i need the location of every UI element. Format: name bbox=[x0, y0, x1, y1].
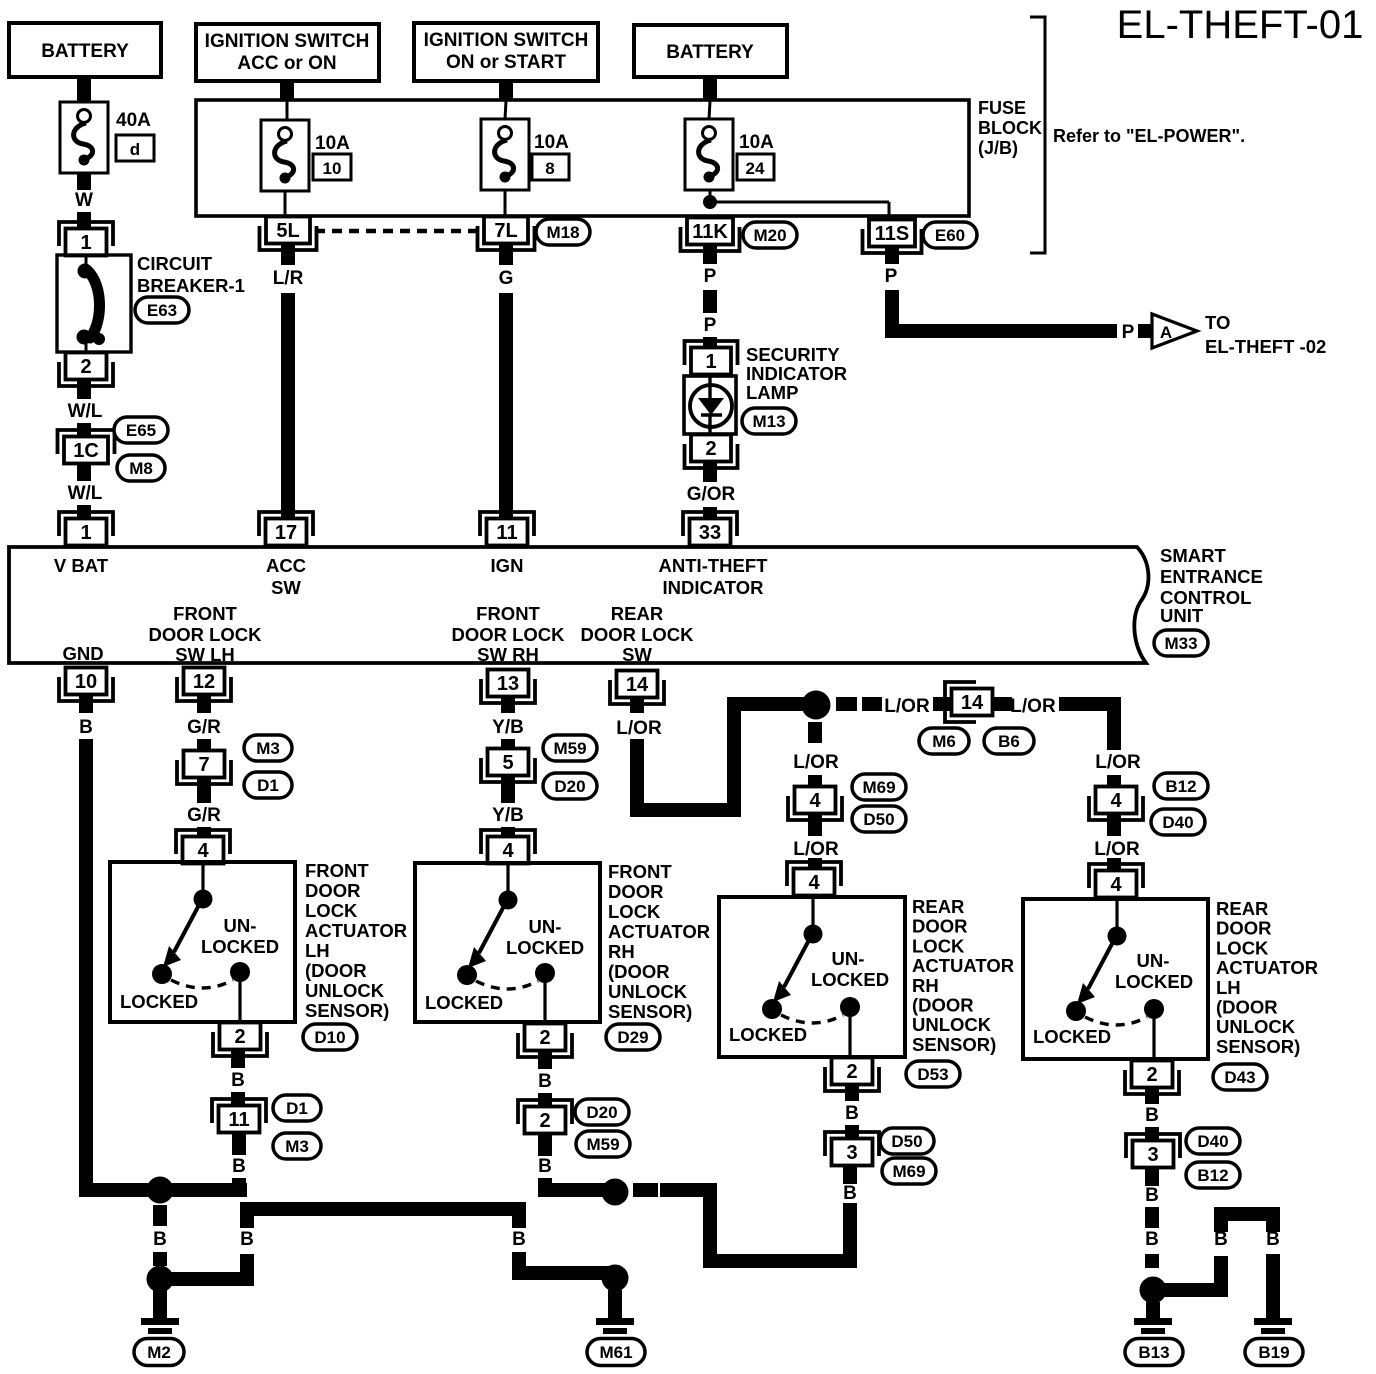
connector 11 D1/M3 bbox=[212, 1099, 266, 1133]
wire label W bbox=[75, 190, 93, 211]
wire 1C to W/L bbox=[77, 464, 91, 481]
wire junctionB to ground M2 bbox=[153, 1290, 167, 1318]
svg-text:M13: M13 bbox=[752, 412, 785, 431]
svg-text:B: B bbox=[845, 1103, 859, 1124]
wire act3 riser bbox=[843, 1203, 857, 1268]
wire label B act3 low bbox=[843, 1183, 857, 1204]
wire label G/R 1 bbox=[187, 717, 221, 738]
svg-text:W/L: W/L bbox=[68, 483, 103, 504]
connector pin 17 ACC SW bbox=[259, 512, 313, 546]
connector label D50 a bbox=[852, 806, 906, 832]
wire pin13 to Y/B bbox=[501, 697, 515, 713]
wire label B leg B19 bbox=[1266, 1229, 1280, 1250]
circuit breaker-1 label bbox=[137, 253, 245, 296]
security indicator lamp label bbox=[746, 344, 847, 403]
svg-text:11: 11 bbox=[496, 522, 517, 544]
svg-text:SECURITY: SECURITY bbox=[746, 344, 840, 365]
svg-text:UN-: UN- bbox=[224, 915, 257, 936]
wire act1-2 to B bbox=[231, 1050, 245, 1068]
svg-text:UNIT: UNIT bbox=[1160, 605, 1204, 626]
connector label M69 a bbox=[852, 774, 906, 800]
svg-text:E65: E65 bbox=[126, 421, 156, 440]
connector label D20 a bbox=[543, 773, 597, 799]
wire 7L to G bbox=[499, 244, 513, 265]
svg-text:DOOR: DOOR bbox=[305, 880, 361, 901]
wire P stub at arrow bbox=[1138, 324, 1152, 338]
connector label D1 b bbox=[273, 1095, 321, 1121]
fuse block J/B outline bbox=[196, 100, 969, 216]
svg-text:B: B bbox=[1266, 1229, 1280, 1250]
svg-text:SW LH: SW LH bbox=[175, 644, 235, 665]
connector 1C bbox=[58, 430, 115, 464]
svg-text:ACC: ACC bbox=[266, 555, 306, 576]
connector 1 lamp bbox=[685, 341, 738, 375]
svg-text:33: 33 bbox=[699, 522, 721, 544]
svg-text:(DOOR: (DOOR bbox=[608, 961, 670, 982]
svg-text:BLOCK: BLOCK bbox=[978, 118, 1042, 138]
wire B to conn3a bbox=[845, 1125, 859, 1139]
rear door lock actuator RH label bbox=[912, 896, 1014, 1055]
connector 4 B12/D40 bbox=[1089, 787, 1143, 821]
wire label G/R 2 bbox=[187, 805, 221, 826]
wire battery B1 to fuse F1 bbox=[77, 77, 91, 102]
svg-text:LOCKED: LOCKED bbox=[506, 937, 584, 958]
wire label L/R 1 bbox=[273, 268, 304, 289]
wire conn3b stub bbox=[1145, 1168, 1159, 1186]
connector 4 front LH bbox=[176, 830, 230, 864]
wire label G bbox=[499, 268, 514, 289]
wire label B riser E bbox=[1214, 1229, 1228, 1250]
svg-text:LOCKED: LOCKED bbox=[120, 991, 198, 1012]
svg-text:CIRCUIT: CIRCUIT bbox=[137, 253, 213, 274]
wire label B act2 bbox=[538, 1071, 552, 1092]
svg-text:2: 2 bbox=[1146, 1064, 1157, 1086]
connector 5L bbox=[260, 217, 317, 251]
ground B19 bbox=[1254, 1318, 1292, 1342]
svg-text:L/OR: L/OR bbox=[616, 718, 662, 739]
ground B13 bbox=[1134, 1318, 1172, 1342]
svg-text:UN-: UN- bbox=[529, 916, 562, 937]
svg-text:B: B bbox=[512, 1229, 526, 1250]
label LOCKED 1 bbox=[120, 991, 198, 1012]
wire label B riser R bbox=[512, 1229, 526, 1250]
svg-text:FUSE: FUSE bbox=[978, 98, 1026, 118]
svg-text:LOCK: LOCK bbox=[912, 935, 965, 956]
svg-text:A: A bbox=[1160, 323, 1172, 342]
pin label ACC SW bbox=[266, 555, 306, 598]
fuse 10A 8 bbox=[481, 119, 569, 190]
connector label D50 b bbox=[880, 1128, 934, 1154]
wire B to conn11 bbox=[231, 1092, 245, 1106]
svg-text:M8: M8 bbox=[129, 459, 153, 478]
svg-text:EL-THEFT -02: EL-THEFT -02 bbox=[1205, 336, 1326, 357]
wire label B act2 low bbox=[538, 1156, 552, 1177]
wire L/OR elbow bbox=[630, 697, 741, 817]
svg-text:5L: 5L bbox=[276, 220, 299, 242]
svg-text:M69: M69 bbox=[862, 778, 895, 797]
wire GND corner to junction bbox=[79, 1183, 247, 1197]
wire junctionE to ground B13 bbox=[1146, 1302, 1160, 1318]
svg-text:ACTUATOR: ACTUATOR bbox=[1216, 957, 1318, 978]
svg-text:ON or START: ON or START bbox=[446, 52, 566, 73]
svg-text:G/R: G/R bbox=[187, 717, 221, 738]
svg-text:M59: M59 bbox=[553, 739, 586, 758]
rear door lock actuator LH box bbox=[1023, 899, 1208, 1059]
connector 11K bbox=[681, 218, 740, 252]
connector label D40 a bbox=[1151, 809, 1205, 835]
svg-text:24: 24 bbox=[746, 159, 765, 178]
fuse 10A 24 bbox=[685, 119, 774, 190]
svg-text:3: 3 bbox=[846, 1142, 857, 1164]
wire junctionC to elbow bbox=[660, 1183, 717, 1197]
svg-text:FRONT: FRONT bbox=[173, 603, 237, 624]
junction node below fuse 24 bbox=[703, 195, 717, 209]
svg-text:d: d bbox=[130, 140, 140, 159]
svg-text:10A: 10A bbox=[739, 132, 774, 153]
connector label D10 bbox=[303, 1024, 357, 1050]
wire label B act4 low bbox=[1145, 1185, 1159, 1206]
svg-text:DOOR: DOOR bbox=[608, 881, 664, 902]
svg-text:E60: E60 bbox=[935, 226, 965, 245]
svg-text:V BAT: V BAT bbox=[54, 555, 109, 576]
svg-text:SW: SW bbox=[622, 644, 652, 665]
svg-text:BREAKER-1: BREAKER-1 bbox=[137, 275, 245, 296]
wire riser E dash bbox=[1214, 1214, 1228, 1232]
svg-text:4: 4 bbox=[808, 872, 820, 894]
svg-text:W: W bbox=[75, 190, 93, 211]
svg-text:4: 4 bbox=[197, 840, 209, 862]
svg-text:TO: TO bbox=[1205, 312, 1230, 333]
connector label B12 a bbox=[1154, 773, 1208, 799]
svg-text:P: P bbox=[704, 266, 717, 287]
title EL-THEFT-01 bbox=[1117, 3, 1364, 47]
svg-text:INDICATOR: INDICATOR bbox=[662, 577, 763, 598]
connector label M59 b bbox=[576, 1131, 630, 1157]
svg-text:8: 8 bbox=[545, 159, 554, 178]
wire P elbow to arrow bbox=[885, 290, 1117, 338]
svg-text:2: 2 bbox=[234, 1026, 245, 1048]
wire label L/OR 3 bbox=[1010, 696, 1056, 717]
svg-text:11K: 11K bbox=[692, 221, 728, 243]
wire riser down right bbox=[512, 1252, 526, 1276]
wire label P 4 bbox=[1122, 322, 1135, 343]
svg-text:D20: D20 bbox=[586, 1103, 617, 1122]
dashed line 5L to 7L bbox=[315, 229, 478, 234]
svg-text:Y/B: Y/B bbox=[492, 805, 524, 826]
svg-text:1: 1 bbox=[705, 351, 716, 373]
battery B2 box bbox=[634, 25, 787, 77]
wire L/R to pin 17 bbox=[281, 293, 295, 519]
svg-text:RH: RH bbox=[608, 941, 635, 962]
wire to conn4b col3 bbox=[808, 858, 822, 868]
svg-text:B: B bbox=[1145, 1185, 1159, 1206]
svg-text:7: 7 bbox=[198, 754, 209, 776]
wire lamp to G/OR bbox=[703, 461, 717, 482]
svg-text:2: 2 bbox=[539, 1110, 550, 1132]
svg-text:M59: M59 bbox=[586, 1135, 619, 1154]
wire conn7 to G/R bbox=[197, 778, 211, 803]
connector 4 front RH bbox=[481, 830, 535, 864]
svg-text:LH: LH bbox=[1216, 977, 1241, 998]
svg-text:REAR: REAR bbox=[912, 896, 964, 917]
svg-text:D53: D53 bbox=[917, 1065, 948, 1084]
wire label B act3 bbox=[845, 1103, 859, 1124]
ignition switch ON-or-START box bbox=[414, 23, 598, 81]
wire dash below junction LOR bbox=[808, 722, 822, 743]
wire label B busA bbox=[153, 1229, 167, 1250]
svg-text:7L: 7L bbox=[494, 220, 517, 242]
wire label P 2 bbox=[704, 315, 717, 336]
svg-text:D1: D1 bbox=[286, 1099, 308, 1118]
svg-text:IGNITION SWITCH: IGNITION SWITCH bbox=[205, 31, 370, 52]
fuse 40A d bbox=[60, 102, 154, 173]
connector 4 M69/D50 bbox=[788, 787, 842, 821]
svg-text:SENSOR): SENSOR) bbox=[1216, 1036, 1300, 1057]
wire B to conn3b bbox=[1145, 1127, 1159, 1141]
wire to conn4b col4 bbox=[1107, 858, 1121, 870]
junction node B bbox=[147, 1266, 174, 1293]
svg-text:D20: D20 bbox=[554, 777, 585, 796]
svg-text:SMART: SMART bbox=[1160, 545, 1226, 566]
wire W/L to pin 1 bbox=[77, 505, 91, 519]
wire G/OR to pin 33 bbox=[703, 507, 717, 519]
svg-text:ENTRANCE: ENTRANCE bbox=[1160, 566, 1263, 587]
wire G/R to conn7 bbox=[197, 739, 211, 751]
svg-text:M61: M61 bbox=[599, 1343, 632, 1362]
note refer to EL-POWER bbox=[1053, 126, 1245, 146]
wire label B act1 low bbox=[232, 1156, 246, 1177]
connector 11S bbox=[863, 220, 922, 254]
svg-text:DOOR: DOOR bbox=[912, 916, 968, 937]
svg-text:10: 10 bbox=[323, 159, 342, 178]
svg-text:2: 2 bbox=[80, 356, 91, 378]
wire junctionB to riser bbox=[160, 1272, 254, 1286]
svg-text:B: B bbox=[538, 1156, 552, 1177]
svg-text:B: B bbox=[231, 1070, 245, 1091]
connector label B12 b bbox=[1186, 1162, 1240, 1188]
wire riser E up bbox=[1214, 1256, 1228, 1290]
svg-text:BATTERY: BATTERY bbox=[666, 42, 754, 63]
connector 7 bbox=[177, 751, 231, 785]
connector label E63 bbox=[135, 297, 189, 323]
svg-text:RH: RH bbox=[912, 975, 939, 996]
connector label D43 bbox=[1213, 1064, 1267, 1090]
svg-text:W/L: W/L bbox=[68, 401, 103, 422]
connector 2 lamp bbox=[685, 435, 738, 469]
wire label Y/B 2 bbox=[492, 805, 524, 826]
svg-text:10A: 10A bbox=[315, 133, 350, 154]
svg-text:(DOOR: (DOOR bbox=[1216, 997, 1278, 1018]
connector pin 1 V BAT bbox=[59, 512, 113, 546]
wire label L/OR col4 bbox=[1095, 752, 1141, 773]
label UN-LOCKED 2 bbox=[506, 916, 584, 958]
svg-text:M3: M3 bbox=[285, 1137, 309, 1156]
connector label M2 bbox=[134, 1339, 184, 1366]
svg-text:L/OR: L/OR bbox=[793, 839, 839, 860]
wire label L/OR col4b bbox=[1094, 839, 1140, 860]
wire P to lamp bbox=[703, 337, 717, 349]
fuse block label bbox=[978, 98, 1042, 158]
svg-text:ACTUATOR: ACTUATOR bbox=[912, 955, 1014, 976]
connector label D1 a bbox=[244, 772, 292, 798]
svg-text:D10: D10 bbox=[314, 1028, 345, 1047]
svg-text:LOCKED: LOCKED bbox=[729, 1024, 807, 1045]
wire pin10 to B bbox=[79, 695, 93, 713]
label UN-LOCKED 3 bbox=[811, 948, 889, 990]
svg-text:L/OR: L/OR bbox=[1094, 839, 1140, 860]
wire pin14 to L/OR bbox=[630, 697, 644, 713]
wire label L/OR 2 bbox=[884, 696, 930, 717]
connector label M3 a bbox=[244, 735, 292, 761]
svg-text:Y/B: Y/B bbox=[492, 717, 524, 738]
wire L/OR to col4 corner bbox=[1059, 697, 1121, 750]
svg-text:B: B bbox=[153, 1229, 167, 1250]
fuse block bracket bbox=[1030, 17, 1045, 253]
svg-text:LOCKED: LOCKED bbox=[201, 936, 279, 957]
svg-text:G: G bbox=[499, 268, 514, 289]
wire label G/OR bbox=[687, 484, 736, 505]
wire label B act1 bbox=[231, 1070, 245, 1091]
svg-text:D40: D40 bbox=[1162, 813, 1193, 832]
wire fuse40A to W bbox=[77, 172, 91, 190]
smart entrance control unit box bbox=[9, 547, 1148, 663]
connector 4 rear RH bbox=[787, 862, 841, 896]
svg-text:14: 14 bbox=[626, 674, 649, 696]
connector pin 11 IGN bbox=[480, 512, 534, 546]
svg-text:LOCKED: LOCKED bbox=[425, 992, 503, 1013]
wire battery B2 to fuse block bbox=[703, 77, 717, 119]
svg-text:L/OR: L/OR bbox=[1010, 696, 1056, 717]
wire label B act4 bbox=[1145, 1105, 1159, 1126]
wire conn4a to L/OR col3 bbox=[808, 814, 822, 836]
connector label M69 b bbox=[882, 1158, 936, 1184]
wire W to circuit breaker bbox=[77, 212, 91, 231]
svg-text:LAMP: LAMP bbox=[746, 382, 798, 403]
svg-text:4: 4 bbox=[809, 790, 821, 812]
svg-text:13: 13 bbox=[497, 673, 519, 695]
wire fuse10 to 5L bbox=[284, 191, 287, 218]
connector label M18 bbox=[536, 219, 590, 245]
svg-text:1: 1 bbox=[80, 522, 91, 544]
svg-text:B: B bbox=[79, 717, 93, 738]
svg-text:EL-THEFT-01: EL-THEFT-01 bbox=[1117, 3, 1364, 47]
svg-text:LOCK: LOCK bbox=[305, 900, 358, 921]
svg-text:DOOR: DOOR bbox=[1216, 918, 1272, 939]
pin label FRONT DOOR LOCK SW RH bbox=[451, 603, 565, 665]
junction node A bbox=[147, 1177, 174, 1204]
wire IGN ACC to fuse block bbox=[280, 81, 294, 120]
svg-text:GND: GND bbox=[62, 643, 103, 664]
svg-text:P: P bbox=[885, 266, 898, 287]
wire B to junction A bar bbox=[232, 1178, 246, 1190]
svg-text:D50: D50 bbox=[891, 1132, 922, 1151]
front door lock actuator LH box bbox=[110, 862, 295, 1022]
svg-text:M2: M2 bbox=[147, 1343, 171, 1362]
svg-text:SENSOR): SENSOR) bbox=[912, 1034, 996, 1055]
connector label M3 b bbox=[273, 1133, 321, 1159]
security indicator lamp M13 bbox=[684, 376, 736, 434]
connector label M59 a bbox=[543, 735, 597, 761]
svg-text:B: B bbox=[1145, 1229, 1159, 1250]
connector 4 rear LH bbox=[1089, 864, 1143, 898]
connector label M61 bbox=[587, 1339, 645, 1366]
connector label B19 bbox=[1245, 1339, 1303, 1366]
wire pin12 to G/R bbox=[197, 695, 211, 713]
wire act2 corner to junction C bbox=[538, 1178, 620, 1197]
svg-text:LOCKED: LOCKED bbox=[1033, 1026, 1111, 1047]
wire conn4a to L/OR col4 bbox=[1107, 814, 1121, 836]
svg-text:B19: B19 bbox=[1258, 1343, 1289, 1362]
wire junctionE to riser bbox=[1160, 1283, 1228, 1297]
wire junction to 11S bbox=[710, 202, 889, 219]
wire act2-2 to B bbox=[538, 1051, 552, 1069]
arrow A to EL-THEFT-02 bbox=[1152, 314, 1197, 348]
label TO EL-THEFT-02 bbox=[1205, 312, 1326, 357]
wire act4-2 to B bbox=[1145, 1088, 1159, 1104]
svg-text:M69: M69 bbox=[892, 1162, 925, 1181]
bridge top bar bbox=[1214, 1207, 1280, 1221]
svg-text:M3: M3 bbox=[256, 739, 280, 758]
svg-text:P: P bbox=[704, 315, 717, 336]
control unit label bbox=[1160, 545, 1263, 626]
connector label B13 bbox=[1125, 1339, 1183, 1366]
wire label W/L 1 bbox=[68, 401, 103, 422]
wire fuse24 to junction bbox=[709, 190, 712, 200]
connector 2 actuator rear LH bbox=[1125, 1061, 1179, 1095]
connector 2 actuator rear RH bbox=[825, 1058, 879, 1092]
svg-text:(DOOR: (DOOR bbox=[912, 995, 974, 1016]
connector 2 actuator RH bbox=[518, 1024, 572, 1058]
svg-text:G/OR: G/OR bbox=[687, 484, 736, 505]
svg-text:5: 5 bbox=[502, 752, 513, 774]
connector label D20 b bbox=[575, 1099, 629, 1125]
wire riser up left bbox=[240, 1254, 254, 1286]
connector label M6 bbox=[919, 728, 969, 754]
wire junctionA dash 2 bbox=[153, 1252, 167, 1266]
wire conn5 to Y/B bbox=[501, 776, 515, 803]
pin label ANTI-THEFT INDICATOR bbox=[659, 555, 769, 598]
svg-text:UN-: UN- bbox=[832, 948, 865, 969]
ignition switch ACC-or-ON box bbox=[196, 24, 379, 81]
pin label FRONT DOOR LOCK SW LH bbox=[148, 603, 262, 665]
wire Y/B to conn5 bbox=[501, 739, 515, 749]
wire label B riser L bbox=[240, 1229, 254, 1250]
svg-text:1C: 1C bbox=[73, 440, 99, 462]
svg-text:UNLOCK: UNLOCK bbox=[305, 980, 385, 1001]
L/OR bus dash right bbox=[836, 697, 882, 711]
connector pin 14 bbox=[610, 671, 664, 705]
svg-text:LOCKED: LOCKED bbox=[1115, 971, 1193, 992]
svg-text:B: B bbox=[1214, 1229, 1228, 1250]
junction node E bbox=[1140, 1277, 1167, 1304]
connector 2 D20/M59 bbox=[518, 1100, 572, 1134]
wire fuse8 to 7L bbox=[504, 190, 507, 218]
connector 3 D40/B12 bbox=[1126, 1134, 1180, 1168]
svg-text:ANTI-THEFT: ANTI-THEFT bbox=[659, 555, 769, 576]
wire act4 dash 1 bbox=[1145, 1207, 1159, 1228]
connector 1 breaker top bbox=[59, 222, 113, 256]
wire label P 1 bbox=[704, 266, 717, 287]
circuit breaker-1 box bbox=[57, 255, 131, 352]
svg-text:SW: SW bbox=[271, 577, 301, 598]
svg-text:4: 4 bbox=[1110, 790, 1122, 812]
connector label D40 b bbox=[1186, 1128, 1240, 1154]
svg-text:UNLOCK: UNLOCK bbox=[608, 981, 688, 1002]
wire label P 3 bbox=[885, 266, 898, 287]
svg-text:M6: M6 bbox=[932, 732, 956, 751]
wire to junction D bbox=[512, 1266, 618, 1280]
svg-text:G/R: G/R bbox=[187, 805, 221, 826]
